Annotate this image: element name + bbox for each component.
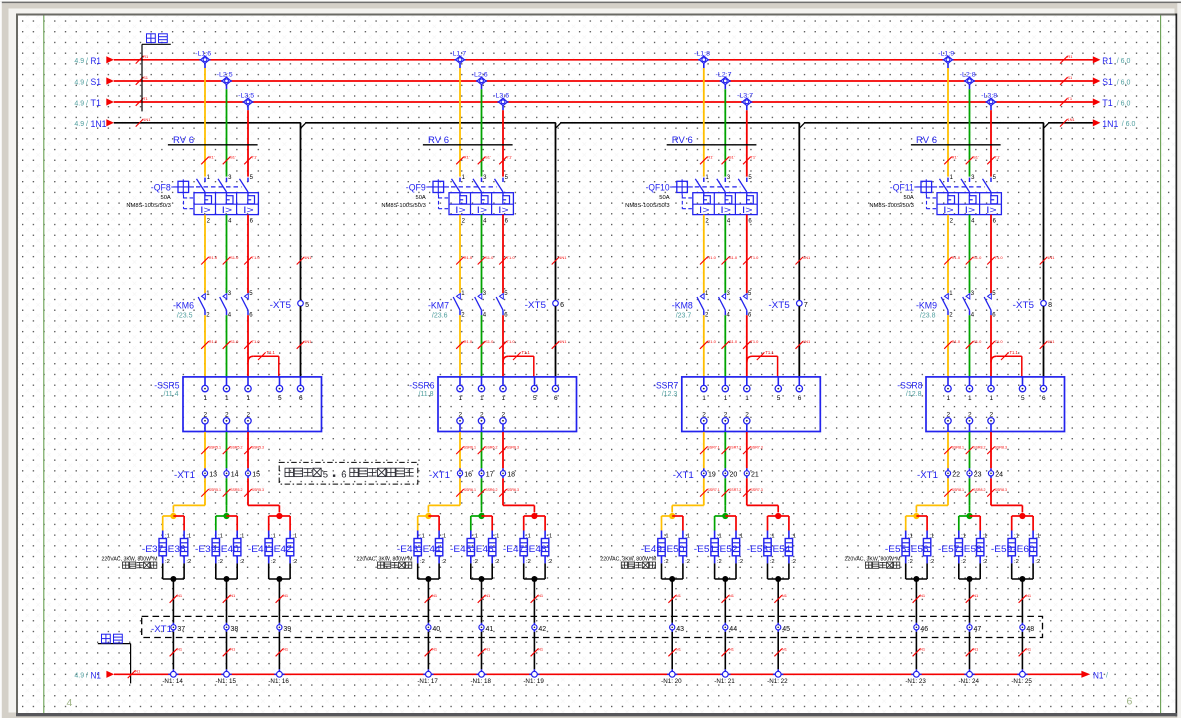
svg-text::1: :1	[983, 534, 988, 540]
svg-text:220VAC, 3KW, 800W*M: 220VAC, 3KW, 800W*M	[357, 556, 413, 562]
svg-text:16: 16	[464, 472, 472, 479]
svg-text:SSR7.2: SSR7.2	[729, 488, 741, 492]
svg-text:-N1: 22: -N1: 22	[767, 678, 788, 685]
svg-text:-L3:8: -L3:8	[981, 93, 997, 100]
svg-text:/: /	[1106, 673, 1108, 680]
svg-text:N1: N1	[1026, 593, 1032, 598]
svg-text:220VAC, 3KW, 800W*M: 220VAC, 3KW, 800W*M	[845, 556, 901, 562]
svg-text::1: :1	[420, 534, 425, 540]
svg-text:50A: 50A	[659, 195, 669, 201]
svg-text:SSR5.1: SSR5.1	[209, 445, 221, 449]
svg-text:-QF9: -QF9	[406, 183, 426, 193]
svg-text:N1: N1	[538, 647, 544, 652]
svg-text::2: :2	[271, 559, 276, 565]
svg-text:N1: N1	[432, 647, 438, 652]
svg-text::2: :2	[441, 559, 446, 565]
svg-text:-L1:7: -L1:7	[450, 51, 466, 58]
svg-text:1N1: 1N1	[1047, 255, 1055, 260]
svg-text:1N1: 1N1	[1102, 119, 1118, 130]
svg-text:-E37: -E37	[142, 544, 163, 554]
svg-text:5: 5	[278, 395, 282, 402]
svg-text:T1.0: T1.0	[750, 339, 759, 344]
svg-text:-E59: -E59	[991, 544, 1012, 554]
svg-text::2: :2	[292, 559, 297, 565]
svg-text:T1.0: T1.0	[995, 255, 1004, 260]
svg-text:R1': R1'	[707, 155, 713, 160]
svg-text::1: :1	[1035, 534, 1040, 540]
svg-text:S1.0: S1.0	[729, 255, 738, 260]
svg-text:I>: I>	[965, 205, 976, 215]
svg-text:1N1: 1N1	[143, 117, 151, 122]
svg-text:-L3:7: -L3:7	[737, 93, 753, 100]
svg-text:SSR5.2: SSR5.2	[230, 488, 242, 492]
svg-text:-E48: -E48	[525, 544, 546, 554]
svg-text::2: :2	[165, 559, 170, 565]
svg-text:41: 41	[486, 626, 494, 633]
svg-text:1: 1	[480, 395, 484, 402]
svg-text::2: :2	[547, 559, 552, 565]
svg-text:-E49: -E49	[641, 544, 662, 554]
svg-text:SSR5.3: SSR5.3	[252, 488, 264, 492]
svg-text:-L3:5: -L3:5	[238, 93, 254, 100]
svg-text:T1.0: T1.0	[252, 255, 261, 260]
svg-text:5: 5	[1021, 395, 1025, 402]
svg-text:N1: N1	[91, 671, 102, 682]
svg-text:38: 38	[231, 626, 239, 633]
svg-text:R1.0: R1.0	[952, 339, 961, 344]
svg-text:-E57: -E57	[938, 544, 959, 554]
svg-text:-E52: -E52	[716, 544, 737, 554]
svg-text:6: 6	[299, 395, 303, 402]
svg-text:/23.6: /23.6	[432, 313, 448, 320]
svg-text:-QF8: -QF8	[151, 183, 171, 193]
svg-text::2: :2	[929, 559, 934, 565]
svg-text::2: :2	[738, 559, 743, 565]
svg-text:50A: 50A	[903, 195, 913, 201]
svg-text:4.9 /: 4.9 /	[74, 58, 88, 65]
svg-text:-E43: -E43	[397, 544, 418, 554]
svg-text:S1.0: S1.0	[485, 255, 494, 260]
svg-text::1: :1	[1014, 534, 1019, 540]
svg-text:6: 6	[560, 302, 564, 309]
svg-text:1N1: 1N1	[559, 339, 567, 344]
svg-text:45: 45	[782, 626, 790, 633]
svg-text:42: 42	[538, 626, 546, 633]
svg-text:-SSR6: -SSR6	[409, 380, 434, 390]
svg-text:/23.5: /23.5	[177, 313, 193, 320]
svg-text::2: :2	[770, 559, 775, 565]
svg-text:T1.0: T1.0	[507, 255, 516, 260]
svg-text:N1: N1	[676, 647, 682, 652]
svg-text:1: 1	[745, 395, 749, 402]
svg-text:1: 1	[946, 395, 950, 402]
svg-text:15: 15	[252, 472, 260, 479]
svg-text:6: 6	[798, 395, 802, 402]
svg-text:S1: S1	[143, 75, 149, 80]
svg-text:SSR7.1: SSR7.1	[707, 488, 719, 492]
svg-text:N1: N1	[538, 593, 544, 598]
svg-text:N1: N1	[485, 647, 491, 652]
svg-text::2: :2	[908, 559, 913, 565]
svg-text:-KM8: -KM8	[672, 301, 693, 311]
svg-text:T1.0: T1.0	[750, 255, 759, 260]
svg-text:1: 1	[501, 395, 505, 402]
svg-text::2: :2	[495, 559, 500, 565]
svg-text:N1: N1	[1093, 671, 1104, 682]
svg-text:5: 5	[777, 395, 781, 402]
svg-text:-E58: -E58	[960, 544, 981, 554]
svg-text:22: 22	[952, 472, 960, 479]
svg-text:/11.8: /11.8	[418, 391, 433, 398]
svg-text:/11.4: /11.4	[163, 391, 178, 398]
svg-text:1N1: 1N1	[803, 339, 811, 344]
svg-text:-L3:6: -L3:6	[493, 93, 509, 100]
svg-text:/ 6.0: / 6.0	[1122, 121, 1136, 128]
svg-text:5: 5	[533, 395, 537, 402]
svg-text:1N1: 1N1	[1047, 339, 1055, 344]
svg-text:46: 46	[920, 626, 928, 633]
svg-text:/12.8: /12.8	[906, 391, 922, 398]
svg-text:-E39: -E39	[195, 544, 216, 554]
svg-text:-E53: -E53	[747, 544, 768, 554]
svg-text:-L1:8: -L1:8	[694, 51, 710, 58]
svg-text::2: :2	[420, 559, 425, 565]
svg-text:1: 1	[702, 395, 706, 402]
svg-text:-XT1: -XT1	[174, 470, 195, 480]
svg-text:S1': S1'	[729, 155, 735, 160]
svg-text:1N1: 1N1	[1067, 117, 1075, 122]
svg-text:43: 43	[676, 626, 684, 633]
svg-text:S1.0: S1.0	[230, 339, 239, 344]
svg-text:-E40: -E40	[217, 544, 238, 554]
svg-text:-XT1: -XT1	[151, 624, 172, 634]
svg-text:23: 23	[974, 472, 982, 479]
svg-text:-N1: 20: -N1: 20	[661, 678, 682, 685]
svg-text:S1: S1	[1067, 75, 1073, 80]
svg-text:-QF11: -QF11	[890, 183, 914, 193]
svg-text:-N1: 14: -N1: 14	[162, 678, 183, 685]
svg-text::2: :2	[717, 559, 722, 565]
svg-text:-KM6: -KM6	[173, 301, 194, 311]
svg-text:N1: N1	[283, 647, 289, 652]
svg-text:/23.8: /23.8	[920, 313, 936, 320]
svg-text:S1': S1'	[973, 155, 979, 160]
svg-text:/ 6.0: / 6.0	[1117, 79, 1131, 86]
svg-text:SSR6.1: SSR6.1	[464, 445, 476, 449]
svg-text:-L2:5: -L2:5	[217, 72, 233, 79]
svg-text:S1: S1	[1102, 77, 1113, 88]
svg-text:/12.3: /12.3	[662, 391, 678, 398]
svg-text:-E46: -E46	[472, 544, 493, 554]
svg-text:SSR6.1: SSR6.1	[464, 488, 476, 492]
svg-text::1: :1	[685, 534, 690, 540]
svg-text:R1': R1'	[464, 155, 470, 160]
svg-text:-KM9: -KM9	[916, 301, 937, 311]
svg-text:-XT1: -XT1	[673, 470, 694, 480]
svg-text:1: 1	[724, 395, 728, 402]
svg-text:-L1:6: -L1:6	[195, 51, 211, 58]
svg-text:-KM7: -KM7	[428, 301, 449, 311]
svg-text:N1: N1	[782, 593, 788, 598]
svg-text:6: 6	[341, 470, 346, 481]
svg-text:40: 40	[432, 626, 440, 633]
svg-text::1: :1	[770, 534, 775, 540]
svg-text:SSR5.2: SSR5.2	[230, 445, 242, 449]
svg-text::2: :2	[473, 559, 478, 565]
svg-text:R1: R1	[1102, 56, 1113, 67]
svg-text:SSR8.3: SSR8.3	[995, 445, 1007, 449]
svg-text:N1: N1	[676, 593, 682, 598]
svg-text:I>: I>	[699, 205, 710, 215]
svg-text:50A: 50A	[415, 195, 425, 201]
svg-text:-E45: -E45	[450, 544, 471, 554]
svg-text::1: :1	[961, 534, 966, 540]
svg-text:20: 20	[730, 472, 738, 479]
svg-text::1: :1	[908, 534, 913, 540]
svg-text:-L1:9: -L1:9	[938, 51, 954, 58]
svg-text:SSR8.3: SSR8.3	[995, 488, 1007, 492]
svg-text:6: 6	[1127, 696, 1133, 708]
svg-text::1: :1	[717, 534, 722, 540]
svg-text:T1': T1'	[507, 155, 513, 160]
svg-text:4.9 /: 4.9 /	[74, 121, 88, 128]
svg-text:SSR7.3: SSR7.3	[750, 488, 762, 492]
svg-text::2: :2	[186, 559, 191, 565]
svg-text:-E60: -E60	[1013, 544, 1034, 554]
svg-text:SSR6.3: SSR6.3	[507, 488, 519, 492]
svg-text:T1: T1	[1102, 98, 1113, 109]
svg-text:I>: I>	[455, 205, 466, 215]
svg-text:7: 7	[804, 302, 808, 309]
svg-text:/ 6.0: / 6.0	[1117, 100, 1131, 107]
svg-text:18: 18	[507, 472, 515, 479]
svg-text:I>: I>	[200, 205, 211, 215]
svg-text:I>: I>	[742, 205, 753, 215]
svg-text:14: 14	[231, 472, 239, 479]
svg-text:-N1: 16: -N1: 16	[268, 678, 289, 685]
svg-text:/ 6.0: / 6.0	[1117, 58, 1131, 65]
svg-text::1: :1	[526, 534, 531, 540]
svg-text:-N1: 15: -N1: 15	[215, 678, 236, 685]
svg-text:T1: T1	[1067, 96, 1072, 101]
svg-text:I>: I>	[943, 205, 954, 215]
svg-text:T1.1: T1.1	[765, 350, 774, 355]
svg-text::1: :1	[473, 534, 478, 540]
svg-text:N1: N1	[177, 647, 183, 652]
svg-text:1N1: 1N1	[304, 339, 312, 344]
svg-text:S1.0: S1.0	[485, 339, 494, 344]
svg-text:T1.0: T1.0	[995, 339, 1004, 344]
svg-text:N1: N1	[283, 593, 289, 598]
svg-text:-SSR7: -SSR7	[653, 380, 678, 390]
svg-text:SSR8.1: SSR8.1	[952, 445, 964, 449]
svg-text:T1: T1	[91, 98, 102, 109]
svg-text:-N1: 25: -N1: 25	[1011, 678, 1032, 685]
svg-text:N1: N1	[729, 647, 735, 652]
svg-text:N1: N1	[230, 593, 236, 598]
svg-text::2: :2	[526, 559, 531, 565]
svg-text:4.9 /: 4.9 /	[74, 79, 88, 86]
svg-text:N1: N1	[973, 593, 979, 598]
svg-text:I>: I>	[222, 205, 233, 215]
svg-text:6: 6	[1042, 395, 1046, 402]
svg-text:-L2:8: -L2:8	[960, 72, 976, 79]
svg-text:I>: I>	[498, 205, 509, 215]
svg-text:R1': R1'	[209, 155, 215, 160]
svg-text:N1: N1	[782, 647, 788, 652]
svg-text:/23.7: /23.7	[676, 313, 692, 320]
svg-text:SSR7.2: SSR7.2	[729, 445, 741, 449]
svg-text:N1: N1	[485, 593, 491, 598]
svg-text:17: 17	[486, 472, 494, 479]
svg-text:R1: R1	[1067, 54, 1073, 59]
svg-text:1N1: 1N1	[559, 255, 567, 260]
svg-text:I>: I>	[477, 205, 488, 215]
svg-text:-SSR8: -SSR8	[897, 380, 922, 390]
svg-text:-L2:7: -L2:7	[716, 72, 732, 79]
svg-text:8: 8	[1048, 302, 1052, 309]
svg-text:N1: N1	[920, 647, 926, 652]
svg-text:R1.0: R1.0	[209, 255, 218, 260]
svg-text:37: 37	[177, 626, 185, 633]
svg-text:4: 4	[67, 697, 73, 709]
svg-text:T1.1: T1.1	[1010, 350, 1019, 355]
svg-text::2: :2	[240, 559, 245, 565]
svg-text::2: :2	[1035, 559, 1040, 565]
svg-text:-XT5: -XT5	[270, 300, 291, 310]
svg-text::1: :1	[240, 534, 245, 540]
svg-text:NM8S-100S/50/3: NM8S-100S/50/3	[625, 203, 669, 209]
svg-text:-E44: -E44	[419, 544, 440, 554]
svg-text:R1.0: R1.0	[952, 255, 961, 260]
svg-text:N1: N1	[177, 593, 183, 598]
svg-text:4.9 /: 4.9 /	[74, 100, 88, 107]
svg-text:-N1: 19: -N1: 19	[523, 678, 544, 685]
svg-text:-E50: -E50	[663, 544, 684, 554]
svg-text:N1: N1	[135, 668, 141, 673]
svg-text::1: :1	[547, 534, 552, 540]
svg-text:SSR6.2: SSR6.2	[485, 488, 497, 492]
svg-text::2: :2	[664, 559, 669, 565]
svg-text::2: :2	[218, 559, 223, 565]
svg-text:R1: R1	[91, 56, 102, 67]
svg-text:R1.0: R1.0	[707, 339, 716, 344]
svg-text:S1.0: S1.0	[729, 339, 738, 344]
svg-text:-N1: 21: -N1: 21	[714, 678, 735, 685]
svg-text:SSR6.2: SSR6.2	[485, 445, 497, 449]
svg-text:48: 48	[1026, 626, 1034, 633]
svg-text:-E42: -E42	[270, 544, 291, 554]
svg-text:1: 1	[225, 395, 229, 402]
svg-text:50A: 50A	[160, 195, 170, 201]
svg-text:-N1: 23: -N1: 23	[905, 678, 926, 685]
svg-text:T1.0: T1.0	[252, 339, 261, 344]
svg-text:SSR6.3: SSR6.3	[507, 445, 519, 449]
svg-text:220VAC, 3KW, 800W*M: 220VAC, 3KW, 800W*M	[102, 556, 158, 562]
svg-text:1N1: 1N1	[304, 255, 312, 260]
svg-text:SSR7.3: SSR7.3	[750, 445, 762, 449]
svg-text:T1.1: T1.1	[267, 350, 276, 355]
svg-text:T1: T1	[143, 96, 148, 101]
svg-text:220VAC, 3KW, 800W*M: 220VAC, 3KW, 800W*M	[600, 556, 656, 562]
svg-text:1: 1	[458, 395, 462, 402]
svg-text:N1: N1	[920, 593, 926, 598]
svg-text:1: 1	[246, 395, 250, 402]
svg-text:-N1: 18: -N1: 18	[470, 678, 491, 685]
svg-text:-E51: -E51	[694, 544, 715, 554]
svg-text:R1.0: R1.0	[464, 255, 473, 260]
svg-text:NM8S-100S/50/3: NM8S-100S/50/3	[869, 203, 913, 209]
svg-text:21: 21	[751, 472, 759, 479]
svg-text:-N1: 24: -N1: 24	[958, 678, 979, 685]
svg-text:I>: I>	[986, 205, 997, 215]
svg-text:1: 1	[989, 395, 993, 402]
svg-text:SSR8.1: SSR8.1	[952, 488, 964, 492]
svg-text::1: :1	[165, 534, 170, 540]
svg-text:-XT5: -XT5	[768, 300, 789, 310]
svg-text:-N1: 17: -N1: 17	[417, 678, 438, 685]
svg-text:-XT5: -XT5	[1013, 300, 1034, 310]
svg-text:S1.0: S1.0	[973, 255, 982, 260]
svg-text:R1.0: R1.0	[464, 339, 473, 344]
svg-text::1: :1	[495, 534, 500, 540]
svg-text:1: 1	[968, 395, 972, 402]
svg-text:N1: N1	[729, 593, 735, 598]
svg-text:-E38: -E38	[164, 544, 185, 554]
svg-text:-E54: -E54	[769, 544, 790, 554]
svg-text::1: :1	[791, 534, 796, 540]
svg-text:13: 13	[209, 472, 217, 479]
svg-text::1: :1	[271, 534, 276, 540]
svg-text:SSR5.1: SSR5.1	[209, 488, 221, 492]
svg-text:SSR8.2: SSR8.2	[973, 445, 985, 449]
svg-text:-XT1: -XT1	[917, 470, 938, 480]
svg-text:-E41: -E41	[248, 544, 269, 554]
svg-text:SSR8.2: SSR8.2	[973, 488, 985, 492]
svg-text:NM8S-100S/50/3: NM8S-100S/50/3	[381, 203, 425, 209]
svg-text:R1: R1	[143, 54, 149, 59]
svg-text::1: :1	[738, 534, 743, 540]
svg-text:44: 44	[729, 626, 737, 633]
svg-text:T1': T1'	[252, 155, 258, 160]
svg-text:N1: N1	[973, 647, 979, 652]
svg-text:N1: N1	[432, 593, 438, 598]
svg-text:-XT5: -XT5	[525, 300, 546, 310]
svg-text:S1': S1'	[230, 155, 236, 160]
svg-text:I>: I>	[720, 205, 731, 215]
svg-text:T1.0: T1.0	[507, 339, 516, 344]
svg-text:19: 19	[708, 472, 716, 479]
svg-text:-E56: -E56	[907, 544, 928, 554]
svg-text:N1: N1	[230, 647, 236, 652]
svg-text::1: :1	[186, 534, 191, 540]
svg-text:R1': R1'	[952, 155, 958, 160]
svg-text:-L2:6: -L2:6	[472, 72, 488, 79]
svg-text:5: 5	[323, 470, 328, 481]
svg-text:T1': T1'	[995, 155, 1001, 160]
svg-text::2: :2	[685, 559, 690, 565]
svg-text::2: :2	[791, 559, 796, 565]
svg-text:47: 47	[974, 626, 982, 633]
svg-text:-QF10: -QF10	[646, 183, 670, 193]
svg-text:SSR7.1: SSR7.1	[707, 445, 719, 449]
svg-text:S1.0: S1.0	[973, 339, 982, 344]
svg-text:1N1: 1N1	[91, 119, 107, 130]
svg-text:5: 5	[305, 302, 309, 309]
svg-text:S1.0: S1.0	[230, 255, 239, 260]
svg-text:-SSR5: -SSR5	[154, 380, 179, 390]
svg-text::2: :2	[983, 559, 988, 565]
